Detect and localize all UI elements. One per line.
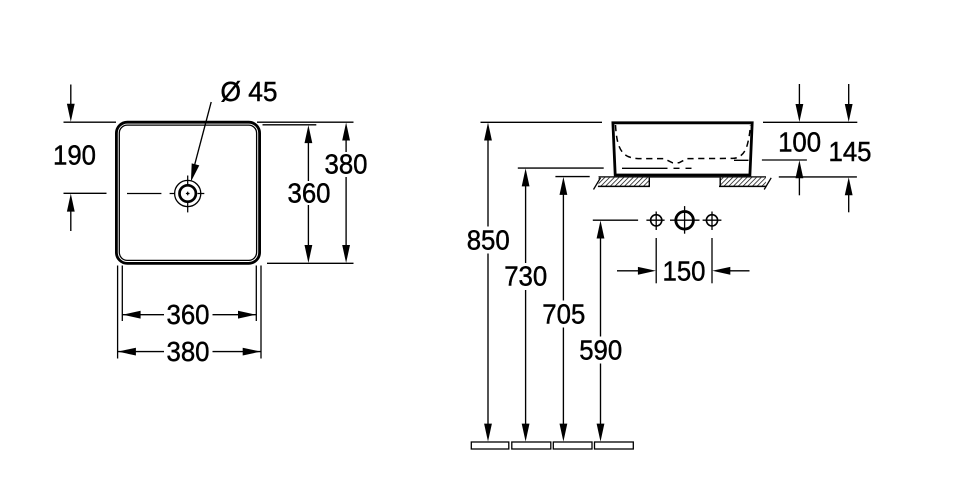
extension line 705 level	[555, 176, 589, 178]
dimension 730 vertical line	[525, 178, 527, 264]
dimension 590 vertical line	[600, 230, 602, 337]
floor strip 4	[595, 442, 634, 449]
basin drain dashes	[674, 167, 680, 169]
dimension 145 upper arrow (down)	[848, 84, 850, 113]
left tap hole crosshair vertical	[655, 212, 657, 231]
wire extension line top-left for 190 dim	[64, 121, 117, 123]
basin side profile outline	[613, 123, 752, 175]
extension line top right of square (380)	[257, 121, 354, 123]
extension line bottom-left outer (380)	[117, 266, 119, 359]
extension line right of basin rim	[763, 121, 857, 123]
extension line bottom-right outer (380)	[260, 266, 262, 359]
dimension 360 bottom line	[122, 314, 164, 316]
countertop hatched section left	[599, 178, 650, 186]
svg-text:850: 850	[467, 224, 510, 255]
dimension 730 arrows	[522, 168, 530, 186]
dimension 150 left extension line	[655, 238, 657, 283]
extension line 730 level	[518, 167, 604, 169]
dimension 190 lower arrow (up)	[70, 203, 72, 231]
dimension 150 line left with arrow	[617, 270, 647, 272]
dimension 380 bottom arrows	[118, 348, 136, 356]
svg-text:730: 730	[504, 261, 547, 292]
right tap hole circle	[706, 215, 717, 226]
dimension 150 right extension line	[711, 238, 713, 283]
floor strip 3	[553, 442, 592, 449]
svg-text:190: 190	[53, 140, 96, 171]
floor strip 2	[512, 442, 551, 449]
extension line top right inner (360)	[263, 124, 317, 126]
dimension 100 lower extension line	[762, 159, 807, 161]
dimension 705 vertical line	[562, 186, 564, 301]
dimension 380 bottom line	[118, 351, 164, 353]
leader arrowhead at tap hole	[191, 163, 199, 181]
basin outer rounded square (top view)	[116, 122, 259, 263]
dimension 380 right vertical line	[345, 132, 347, 153]
dimension 100 upper arrow (down)	[798, 84, 800, 113]
svg-text:705: 705	[542, 298, 585, 329]
middle hole crosshair vertical	[684, 206, 686, 234]
middle hole circle	[676, 212, 694, 230]
leader line for diameter 45	[194, 102, 211, 167]
dimension 850 arrows	[484, 123, 492, 141]
svg-text:590: 590	[579, 334, 622, 365]
svg-text:380: 380	[167, 336, 210, 367]
tap hole crosshair horizontal ticks	[170, 193, 176, 195]
dimension 590 arrows	[597, 221, 605, 239]
svg-text:360: 360	[288, 178, 331, 209]
svg-text:100: 100	[778, 126, 821, 157]
svg-text:145: 145	[829, 136, 872, 167]
basin interior solid line right	[734, 159, 749, 161]
dimension 380 right arrows	[342, 123, 350, 141]
svg-text:150: 150	[663, 255, 706, 286]
extension line bottom-left inner (360)	[121, 266, 123, 322]
countertop surface line	[599, 176, 767, 178]
dimension 150 line right with arrow	[721, 270, 750, 272]
dimension 190 upper arrow (down)	[70, 85, 72, 113]
svg-text:380: 380	[325, 149, 368, 180]
extension line bottom-right inner (360)	[255, 266, 257, 322]
basin interior solid line left	[622, 167, 668, 169]
left tap hole circle	[651, 215, 662, 226]
basin inner rounded square (top view)	[119, 125, 256, 260]
svg-text:360: 360	[167, 299, 210, 330]
dimension 705 arrows	[560, 177, 568, 195]
tap hole outer circle	[175, 180, 201, 206]
extension line 850 to basin rim	[481, 121, 603, 123]
dimension 850 vertical line	[487, 132, 489, 227]
dimension 360 right vertical line	[307, 134, 309, 181]
tap hole crosshair vertical ticks	[187, 176, 189, 186]
dimension 730 label	[502, 264, 549, 289]
dimension 590 label	[577, 337, 624, 362]
tap hole inner circle	[180, 185, 196, 201]
centerline horizontal dash left of tap hole	[127, 193, 161, 195]
right tap hole crosshair vertical	[711, 212, 713, 231]
dimension 145 lower extension line	[779, 176, 857, 178]
dimension 100 lower arrow (up)	[798, 170, 800, 196]
dimension 850 label	[465, 228, 512, 253]
dimension 360 right arrows	[305, 125, 313, 143]
svg-text:Ø 45: Ø 45	[221, 76, 278, 107]
dimension 360 bottom arrows	[123, 311, 141, 319]
dimension 705 label	[540, 301, 587, 326]
holes centerline horizontal	[593, 219, 638, 221]
countertop hatched section right	[720, 178, 766, 186]
dimension 190 lower extension line	[64, 192, 107, 194]
dimension 145 lower arrow (up)	[848, 187, 850, 213]
floor strip 1	[471, 442, 509, 449]
basin inner bowl dashed profile	[616, 125, 751, 163]
extension line bottom right of square shared	[267, 262, 354, 264]
